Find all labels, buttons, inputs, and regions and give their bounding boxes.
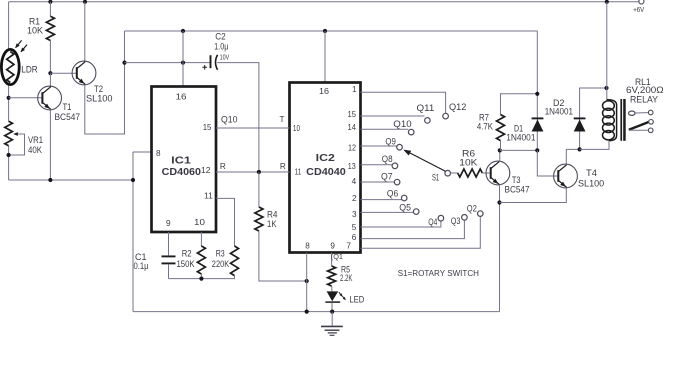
svg-text:R2: R2 [182,248,192,258]
wire +6V top rail [9,1,639,3]
wire R6 to T3 base [482,172,491,174]
node R2 oscillator junction [199,277,203,281]
terminal Q8 [392,163,398,169]
wire Q9 output [361,145,397,147]
terminal Q6 [401,195,407,201]
svg-text:2.2K: 2.2K [340,273,352,283]
relay RL1 core [620,99,622,141]
svg-text:Q12: Q12 [449,102,466,112]
LDR light arrow 1 [16,40,22,47]
svg-text:16: 16 [176,92,187,101]
svg-text:SL100: SL100 [578,178,604,188]
node D2 anode [578,147,582,151]
wire T2 base lead [50,72,77,74]
svg-text:Q7: Q7 [381,172,393,182]
svg-text:11: 11 [204,192,213,201]
capacitor C2 left plate [210,55,212,68]
node emitter join [497,200,501,204]
svg-text:1N4001: 1N4001 [545,106,573,116]
rotary switch S1 pivot [445,170,451,176]
terminal Q9 [397,144,403,150]
wire Q10 clock link [216,127,290,129]
svg-text:14: 14 [348,123,357,132]
wire IC2 pin16 lead [324,31,326,83]
wire R4 top lead [258,172,260,207]
wire IC1 pin11 to R3 [216,198,235,246]
resistor R3 [231,246,239,276]
node reset junction [257,170,261,174]
svg-text:10K: 10K [27,26,43,36]
wire Q4 output [361,221,441,227]
svg-text:T1: T1 [63,102,72,112]
terminal +6V [639,0,644,4]
svg-text:4.7K: 4.7K [477,122,493,132]
wire Q11 output [361,115,425,117]
node T3 collector [498,148,502,152]
resistor R6 [458,169,483,177]
transistor T3 [486,161,510,185]
svg-text:Q6: Q6 [387,188,398,198]
wire R7 bottom lead [500,141,502,151]
resistor R4 [255,207,263,231]
svg-text:CD4040: CD4040 [306,166,346,178]
capacitor C1 bottom plate [162,262,176,264]
node relay feed [605,0,609,4]
wire T3 emitter lead [499,186,501,312]
wire relay coil bottom lead [580,140,609,150]
wire R5 to LED [331,286,333,291]
terminal Q11 [425,118,431,124]
photoresistor LDR body [1,49,19,84]
LED light arrow 1 [339,292,342,295]
svg-text:LDR: LDR [21,65,37,75]
wire T1 base lead [9,97,43,99]
svg-text:1K: 1K [267,219,277,229]
wire IC1 pin10 lead [200,232,202,246]
node T2 base junction [48,71,52,75]
svg-text:10: 10 [293,124,300,133]
wire ground-return bottom left [9,179,133,181]
svg-text:1: 1 [352,85,357,94]
node T1 emitter bottom [48,178,52,182]
svg-text:+6V: +6V [633,5,645,14]
node D1 anode [535,148,539,152]
svg-text:15: 15 [348,110,357,119]
wire T1 emitter lead [49,110,51,181]
svg-text:T: T [280,115,285,124]
svg-text:CD4060: CD4060 [162,166,202,178]
svg-text:Q3: Q3 [451,216,461,226]
node R4 to pin8 [305,279,309,283]
svg-text:S1: S1 [432,173,439,183]
node LED ground [330,310,334,314]
svg-text:220K: 220K [212,259,230,269]
terminal Q5 [413,209,419,215]
svg-text:4: 4 [352,177,357,186]
svg-text:SL100: SL100 [86,93,113,103]
VR1 wiper [10,134,25,155]
svg-text:150K: 150K [177,259,195,269]
svg-text:13: 13 [348,162,356,171]
LDR light arrow 2 [21,45,27,52]
svg-text:3: 3 [352,210,357,219]
svg-text:8: 8 [156,149,161,158]
node R1 top [48,0,52,4]
wire T2 emitter run [85,31,125,134]
relay contact blade [629,122,649,130]
resistor R5 [328,266,336,286]
wire R1 bottom lead [49,41,51,74]
wire oscillator node [169,278,236,280]
svg-text:IC2: IC2 [316,152,335,164]
wire relay feed [606,2,608,101]
svg-text:IC1: IC1 [171,155,191,167]
svg-text:1.0μ: 1.0μ [214,41,228,51]
transistor T1 [38,86,62,110]
diode D2 [574,120,586,132]
node R7 D1 top [535,92,539,96]
wire T1 collector lead [49,73,51,87]
wire reset link [216,171,290,173]
svg-text:LED: LED [349,294,364,304]
svg-text:T2: T2 [94,84,103,94]
node Vcc sub-rail C2 tap [122,61,126,65]
node T2 collector top [83,0,87,4]
svg-text:T3: T3 [512,175,521,185]
preset VR1 [5,121,13,146]
LED D3 cathode bar [325,301,340,303]
svg-text:Q10: Q10 [221,115,238,125]
svg-text:1N4001: 1N4001 [506,132,535,142]
wire T4 emitter run [500,188,567,203]
relay contact common [629,111,635,115]
diode D1 [532,120,544,132]
svg-text:BC547: BC547 [505,185,530,195]
terminal Q7 [394,179,400,185]
svg-text:Q4: Q4 [428,217,437,227]
wire left rail lower [8,146,10,180]
svg-text:Q8: Q8 [382,154,393,164]
wire Q5 output [361,211,414,213]
node VR1 bottom [7,153,11,157]
wire R1 top lead [49,2,51,16]
node pin8 drop junction [131,178,135,182]
terminal Q3 [462,215,468,221]
svg-text:Q9: Q9 [385,136,396,146]
wire C1 bottom lead [168,264,170,278]
svg-text:R3: R3 [216,248,225,258]
wire IC2 pin9 lead [331,253,333,267]
capacitor C1 top plate [162,255,176,257]
wire IC1 pin9 lead [168,232,170,255]
svg-text:Q2: Q2 [467,203,477,213]
svg-text:12: 12 [201,166,211,175]
node D2 cathode [604,86,608,90]
wire R7 top run [501,94,538,115]
transistor T4 [554,164,578,188]
wire T4 collector run [566,149,579,164]
node IC2 pin16 rail tap [323,29,327,33]
svg-text:16: 16 [319,87,329,96]
svg-text:T4: T4 [586,168,597,178]
wire IC1 pin8 stub [133,151,152,153]
svg-text:RELAY: RELAY [630,95,658,105]
svg-text:R: R [280,162,286,171]
wire Q7 output [361,181,395,183]
wire T3 collector lead [499,150,501,162]
wire R3 bottom lead [234,276,236,279]
rotary switch S1 wiper [410,153,446,171]
wire D1 branch [536,31,538,150]
wire Q12 output [361,92,446,119]
wire IC2 pin8 lead [306,253,308,312]
svg-text:12: 12 [348,144,356,153]
svg-text:6: 6 [352,233,357,242]
wire S1 to R6 [451,172,458,174]
ground [331,312,333,327]
LED D3 triangle [327,291,339,301]
svg-text:9: 9 [330,242,335,251]
svg-text:40K: 40K [28,145,42,155]
wire Q10 out output [361,128,409,130]
wire C2 feed [125,62,211,64]
wire T2 collector lead [84,2,86,62]
wire R4 bottom run [259,231,307,281]
wire Q6 output [361,199,402,201]
wire T4 base run [537,150,558,176]
svg-text:9: 9 [166,219,171,228]
node IC1 pin16 rail tap [181,29,185,33]
wire Q8 output [361,164,393,166]
node IC1 pin16 C2 crossing [181,61,185,65]
svg-text:C2: C2 [215,32,226,42]
wire left rail upper [8,2,10,122]
svg-text:(Q1: (Q1 [331,252,343,261]
wire collector to D1 node [500,149,538,151]
wire bottom rail [133,311,500,313]
svg-text:8: 8 [305,242,310,251]
svg-text:R: R [220,162,226,171]
node T1 base on rail [7,96,11,100]
wire D2 branch [580,88,607,149]
wire pin8 drop to bottom rail [132,152,134,312]
resistor R2 [197,246,205,274]
relay RL1 coil [603,101,615,110]
node pin8 ground [305,310,309,314]
svg-text:Q11: Q11 [417,103,435,113]
svg-text:Q5: Q5 [399,202,411,212]
photoresistor LDR element [7,52,14,83]
svg-text:10: 10 [194,218,205,227]
svg-text:5: 5 [352,223,357,232]
svg-text:10V: 10V [220,53,230,62]
svg-text:0.1μ: 0.1μ [134,261,149,271]
svg-text:S1=ROTARY SWITCH: S1=ROTARY SWITCH [398,268,479,278]
transistor T2 [72,61,96,85]
capacitor C2 plus sign [202,65,207,70]
wire LED to ground rail [331,303,333,312]
svg-text:11: 11 [295,168,302,177]
relay contact NC [629,129,648,131]
op-amp IC2 CD4040 box [290,83,361,253]
svg-text:R4: R4 [267,209,278,219]
wire R2 bottom lead [200,274,202,279]
svg-text:VR1: VR1 [28,135,43,145]
svg-text:2: 2 [352,194,357,203]
svg-text:15: 15 [203,123,212,132]
op-amp IC1 CD4060 box [152,87,217,233]
wire C2 to R line [217,63,259,172]
wire Q3 output [361,220,465,238]
svg-text:7: 7 [346,242,351,251]
terminal Q12 [443,113,449,119]
resistor R1 [46,16,54,40]
resistor R7 [497,115,505,141]
wire Vcc sub-rail [125,30,538,32]
terminal Q2 [478,211,484,217]
capacitor C2 right plate [216,55,218,70]
LED light arrow 2 [342,296,345,299]
svg-text:BC547: BC547 [55,112,81,122]
svg-text:Q10: Q10 [393,119,411,129]
wire IC1 pin16 lead [182,31,184,87]
terminal Q10 out [408,129,414,135]
svg-text:10K: 10K [459,157,477,167]
wire Q2 output [361,217,481,249]
terminal Q4 [438,215,444,221]
